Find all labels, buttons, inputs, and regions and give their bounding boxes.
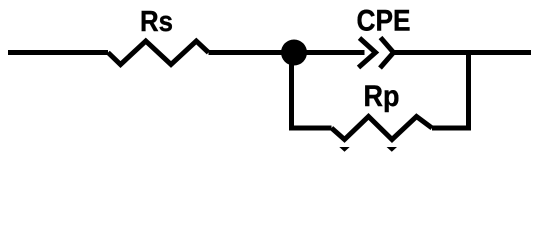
node junction dot <box>281 40 307 66</box>
svg-text:CPE: CPE <box>357 5 411 38</box>
CPE chevron 2 <box>380 38 394 69</box>
wire Rs to node <box>209 50 365 55</box>
resistor Rp <box>332 117 433 140</box>
wire CPE to right end <box>394 50 532 55</box>
arrow mark under Rp valley 1 <box>339 147 349 152</box>
wire bottom right lead and right branch up <box>432 53 469 129</box>
arrow mark under Rp valley 2 <box>387 147 397 152</box>
wire left branch down and bottom lead <box>292 53 332 129</box>
svg-text:Rs: Rs <box>140 6 173 38</box>
svg-text:Rp: Rp <box>364 80 400 113</box>
CPE chevron 1 <box>359 38 376 68</box>
resistor Rs <box>108 41 209 65</box>
wire left lead <box>8 50 108 55</box>
